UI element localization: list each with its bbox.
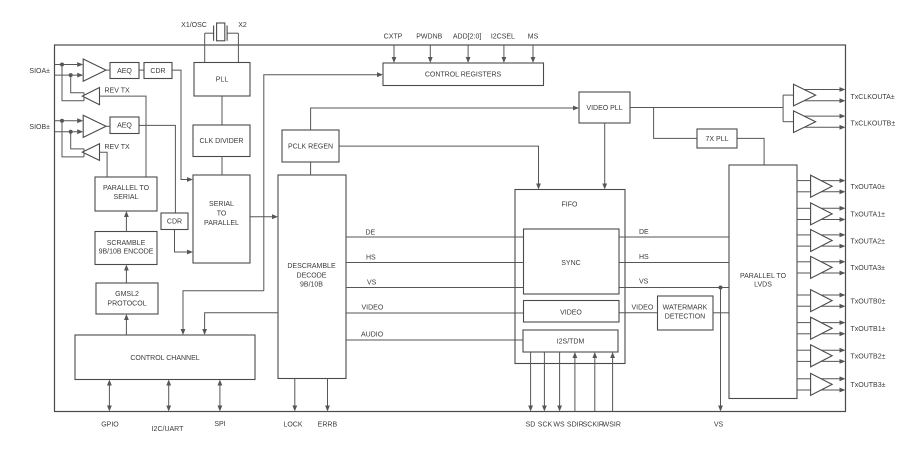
wire LOCK pin <box>294 379 296 406</box>
svg-text:X1/OSC: X1/OSC <box>181 22 207 29</box>
svg-text:TxOUTA1±: TxOUTA1± <box>851 212 886 219</box>
svg-text:VIDEO: VIDEO <box>632 304 654 311</box>
svg-text:SCRAMBLE: SCRAMBLE <box>107 240 146 247</box>
crystal X1 leg wire <box>204 33 206 62</box>
buffer input amp A <box>83 59 106 81</box>
wire CONTROL CHANNEL to GMSL2 <box>125 320 127 335</box>
block CONTROL CHANNEL <box>75 335 255 380</box>
svg-text:PARALLEL: PARALLEL <box>204 220 239 227</box>
node SIOB+ junction <box>60 119 64 123</box>
svg-text:CDR: CDR <box>167 219 182 226</box>
wire AUDIO to I2S/TDM <box>346 339 523 341</box>
svg-text:I2CSEL: I2CSEL <box>491 33 515 40</box>
chip outline border <box>55 45 846 412</box>
wire PARALLEL TO SERIAL to REV TX A <box>100 96 147 177</box>
buffer TxOUTA2 <box>811 230 833 252</box>
wire PARALLEL TO SERIAL to REV TX B <box>100 152 108 177</box>
wire PCLK REGEN to FIFO <box>339 146 539 184</box>
wire TxOUTA2 outputs <box>821 234 840 236</box>
svg-text:SIOA±: SIOA± <box>29 68 50 75</box>
wire VS to PARALLEL TO LVDS <box>619 287 729 289</box>
buffer input amp B <box>83 115 106 137</box>
svg-text:SERIAL: SERIAL <box>114 194 139 201</box>
wire TxOUTA3 buffer inputs <box>797 261 811 263</box>
wire TxCLKOUTA outputs <box>804 89 840 91</box>
wire TxOUTB3 buffer inputs <box>797 378 811 380</box>
block PCLK REGEN <box>282 130 339 162</box>
svg-text:DE: DE <box>639 229 649 236</box>
wire TxCLKOUTB outputs <box>804 115 840 117</box>
block VIDEO PLL <box>579 92 630 123</box>
wire HS to SYNC <box>346 262 524 264</box>
svg-text:PWDNB: PWDNB <box>416 33 442 40</box>
svg-text:WSIR: WSIR <box>603 422 621 429</box>
wire VS to bottom pin <box>720 288 722 406</box>
svg-text:AUDIO: AUDIO <box>361 331 384 338</box>
svg-text:DECODE: DECODE <box>297 272 327 279</box>
svg-text:TxOUTB0±: TxOUTB0± <box>851 298 886 305</box>
svg-text:AEQ: AEQ <box>117 68 132 75</box>
wire TxOUTA3 outputs <box>821 261 840 263</box>
svg-text:SPI: SPI <box>214 421 225 428</box>
svg-text:GMSL2: GMSL2 <box>115 291 139 298</box>
svg-text:TxOUTA2±: TxOUTA2± <box>851 238 886 245</box>
wire SCRAMBLE to PARALLEL TO SERIAL <box>125 217 127 232</box>
block SERIAL TO PARALLEL <box>193 175 250 263</box>
svg-text:9B/10B: 9B/10B <box>300 282 323 289</box>
svg-text:VS: VS <box>714 422 724 429</box>
buffer TxOUTB0 <box>811 290 833 312</box>
wire HS to PARALLEL TO LVDS <box>619 262 729 264</box>
block DESCRAMBLE DECODE 9B/10B <box>278 175 346 379</box>
svg-text:DESCRAMBLE: DESCRAMBLE <box>287 263 336 270</box>
svg-text:VS: VS <box>639 278 649 285</box>
wire TxOUTB1 outputs <box>821 322 840 324</box>
svg-text:TxOUTB3±: TxOUTB3± <box>851 382 886 389</box>
block AEQ B <box>110 117 139 134</box>
svg-text:SCK: SCK <box>538 422 553 429</box>
wire WS pin <box>559 352 561 406</box>
wire TxOUTB2 outputs <box>821 349 840 351</box>
svg-text:LOCK: LOCK <box>283 422 302 429</box>
svg-text:CXTP: CXTP <box>384 33 403 40</box>
svg-text:SDIR: SDIR <box>567 422 584 429</box>
wire PLL to CLK DIVIDER <box>221 96 223 125</box>
svg-text:LVDS: LVDS <box>754 282 772 289</box>
wire SDIR pin <box>574 358 576 412</box>
wire DESCRAMBLE to CONTROL CHANNEL <box>205 313 278 329</box>
svg-text:CLK DIVIDER: CLK DIVIDER <box>200 138 244 145</box>
svg-text:PARALLEL TO: PARALLEL TO <box>103 185 150 192</box>
wire I2CSEL pin <box>503 45 505 57</box>
block WATERMARK DETECTION <box>658 296 714 330</box>
wire AEQ A to CDR A <box>139 69 144 71</box>
svg-text:VIDEO PLL: VIDEO PLL <box>586 105 622 112</box>
block PLL <box>194 63 250 97</box>
svg-text:TxCLKOUTA±: TxCLKOUTA± <box>851 94 895 101</box>
svg-text:SIOB±: SIOB± <box>29 124 50 131</box>
wire AEQ B to CDR B <box>139 125 175 213</box>
svg-text:SD: SD <box>526 422 536 429</box>
wire TxOUTA0 buffer inputs <box>797 180 811 182</box>
svg-text:9B/10B ENCODE: 9B/10B ENCODE <box>99 249 154 256</box>
svg-text:WATERMARK: WATERMARK <box>663 305 708 312</box>
svg-text:DE: DE <box>366 229 376 236</box>
wire 7X PLL to PARALLEL TO LVDS <box>737 138 764 165</box>
svg-text:TxOUTB1±: TxOUTB1± <box>851 326 886 333</box>
wire TxOUTA1 outputs <box>821 207 840 209</box>
wire SIOA- input <box>55 74 78 76</box>
wire TxOUTB1 buffer inputs <box>797 322 811 324</box>
wire TxOUTB2 buffer inputs <box>797 349 811 351</box>
wire REV TX B feedback to pads <box>62 121 84 157</box>
wire CDR B to SERIAL TO PARALLEL <box>175 230 188 253</box>
wire TxOUTA2 buffer inputs <box>797 234 811 236</box>
wire VIDEO to FIFO <box>346 312 524 314</box>
block CLK DIVIDER <box>193 125 250 157</box>
svg-text:SCKIR: SCKIR <box>583 422 604 429</box>
svg-text:CDR: CDR <box>150 68 165 75</box>
block AEQ A <box>110 63 139 79</box>
wire VIDEO PLL to clock buffers <box>630 107 783 109</box>
block 7X PLL <box>697 129 737 148</box>
wire VIDEO PLL to FIFO <box>604 123 606 184</box>
svg-text:SYNC: SYNC <box>561 260 580 267</box>
svg-text:REV TX: REV TX <box>105 88 130 95</box>
block VIDEO <box>524 301 620 323</box>
block CDR B <box>161 213 188 230</box>
wire DESCRAMBLE to CONTROL REGISTERS <box>264 75 377 291</box>
svg-text:I2C/UART: I2C/UART <box>152 426 184 433</box>
svg-text:TxOUTA3±: TxOUTA3± <box>851 265 886 272</box>
svg-text:PROTOCOL: PROTOCOL <box>107 300 146 307</box>
svg-text:TxOUTB2±: TxOUTB2± <box>851 354 886 361</box>
wire VS to SYNC <box>346 287 524 289</box>
svg-text:ERRB: ERRB <box>318 422 338 429</box>
wire SIOA+ input <box>55 64 78 66</box>
wire TxOUTB0 outputs <box>821 294 840 296</box>
node SIOB- junction <box>69 130 73 134</box>
buffer TxOUTB2 <box>811 345 833 367</box>
wire PCLK REGEN to VIDEO PLL <box>311 108 574 130</box>
svg-text:ADD[2:0]: ADD[2:0] <box>453 33 481 40</box>
svg-text:PARALLEL TO: PARALLEL TO <box>740 273 787 280</box>
wire WATERMARK DETECTION to PARALLEL TO LVDS <box>713 312 729 314</box>
block I2S/TDM <box>523 330 618 352</box>
crystal Y1 symbol <box>213 26 215 41</box>
svg-text:7X PLL: 7X PLL <box>706 136 729 143</box>
wire SERIAL TO PARALLEL to DESCRAMBLE <box>250 216 272 218</box>
svg-text:VIDEO: VIDEO <box>362 304 384 311</box>
svg-text:REV TX: REV TX <box>105 144 130 151</box>
wire I2C/UART bidirectional pin <box>168 385 170 406</box>
wire GMSL2 to SCRAMBLE <box>125 270 127 283</box>
wire CLK DIVIDER to SERIAL TO PARALLEL <box>221 157 223 176</box>
buffer TxOUTB1 <box>811 317 833 339</box>
svg-text:GPIO: GPIO <box>101 422 119 429</box>
wire TxOUTA0 outputs <box>821 180 840 182</box>
wire amp B to AEQ B <box>106 125 110 127</box>
svg-text:MS: MS <box>528 33 539 40</box>
wire CXTP pin <box>393 45 395 57</box>
wire DE to SYNC <box>346 236 524 238</box>
buffer TxOUTA1 <box>811 203 833 225</box>
wire PCLK REGEN to DESCRAMBLE <box>310 162 312 175</box>
svg-text:HS: HS <box>366 254 376 261</box>
svg-text:VIDEO: VIDEO <box>560 309 582 316</box>
wire TxOUTB0 buffer inputs <box>797 294 811 296</box>
wire GPIO bidirectional pin <box>108 385 110 406</box>
svg-text:PLL: PLL <box>216 77 229 84</box>
buffer TxOUTA0 <box>811 175 833 197</box>
svg-text:SERIAL: SERIAL <box>209 201 234 208</box>
node VS junction <box>719 286 723 290</box>
svg-text:I2S/TDM: I2S/TDM <box>557 339 585 346</box>
block SCRAMBLE 9B/10B ENCODE <box>95 232 157 265</box>
wire SIOB- input <box>55 131 78 133</box>
wire WSIR pin <box>612 358 614 412</box>
svg-text:AEQ: AEQ <box>117 123 132 130</box>
wire CDR A to SERIAL TO PARALLEL <box>172 70 187 179</box>
node SIOA+ junction <box>60 63 64 67</box>
wire amp A to AEQ <box>106 69 110 71</box>
block CONTROL REGISTERS <box>383 63 544 86</box>
wire TxOUTB3 outputs <box>821 378 840 380</box>
wire SD pin <box>530 352 532 406</box>
wire SIOB+ input <box>55 120 78 122</box>
buffer TxCLKOUTA <box>794 84 816 106</box>
svg-text:WS: WS <box>553 422 565 429</box>
node SIOA- junction <box>69 73 73 77</box>
block PARALLEL TO SERIAL <box>95 177 157 211</box>
wire SCK pin <box>543 352 545 406</box>
wire ADD[2:0] pin <box>467 45 469 57</box>
svg-text:VS: VS <box>367 279 377 286</box>
wire SCKIR pin <box>594 358 596 412</box>
wire REV TX A feedback to pads <box>62 65 84 101</box>
block SYNC <box>524 229 620 294</box>
block FIFO <box>515 190 625 364</box>
wire VIDEO PLL to 7X PLL <box>654 108 697 139</box>
svg-text:FIFO: FIFO <box>562 202 578 209</box>
crystal X2 leg wire <box>237 33 239 62</box>
buffer TxOUTB3 <box>811 373 833 395</box>
block GMSL2 PROTOCOL <box>96 283 158 314</box>
svg-text:TO: TO <box>217 211 227 218</box>
svg-text:PCLK REGEN: PCLK REGEN <box>288 143 333 150</box>
wire SPI bidirectional pin <box>219 385 221 406</box>
wire MS pin <box>532 45 534 57</box>
wire DE to PARALLEL TO LVDS <box>619 236 729 238</box>
svg-text:TxOUTA0±: TxOUTA0± <box>851 184 886 191</box>
block PARALLEL TO LVDS <box>729 165 797 399</box>
wire VIDEO to WATERMARK DETECTION <box>619 312 658 314</box>
wire PWDNB pin <box>429 45 431 57</box>
buffer REV TX A <box>82 88 99 105</box>
wire ERRB pin <box>327 379 329 406</box>
svg-text:CONTROL REGISTERS: CONTROL REGISTERS <box>425 72 502 79</box>
buffer TxCLKOUTB <box>794 111 816 133</box>
block CDR A <box>144 63 172 79</box>
svg-text:CONTROL CHANNEL: CONTROL CHANNEL <box>130 355 199 362</box>
wire TxOUTA1 buffer inputs <box>797 207 811 209</box>
svg-text:TxCLKOUTB±: TxCLKOUTB± <box>851 121 896 128</box>
svg-text:X2: X2 <box>238 22 247 29</box>
buffer REV TX B <box>82 144 99 161</box>
svg-text:HS: HS <box>639 254 649 261</box>
svg-text:DETECTION: DETECTION <box>665 314 705 321</box>
buffer TxOUTA3 <box>811 256 833 278</box>
